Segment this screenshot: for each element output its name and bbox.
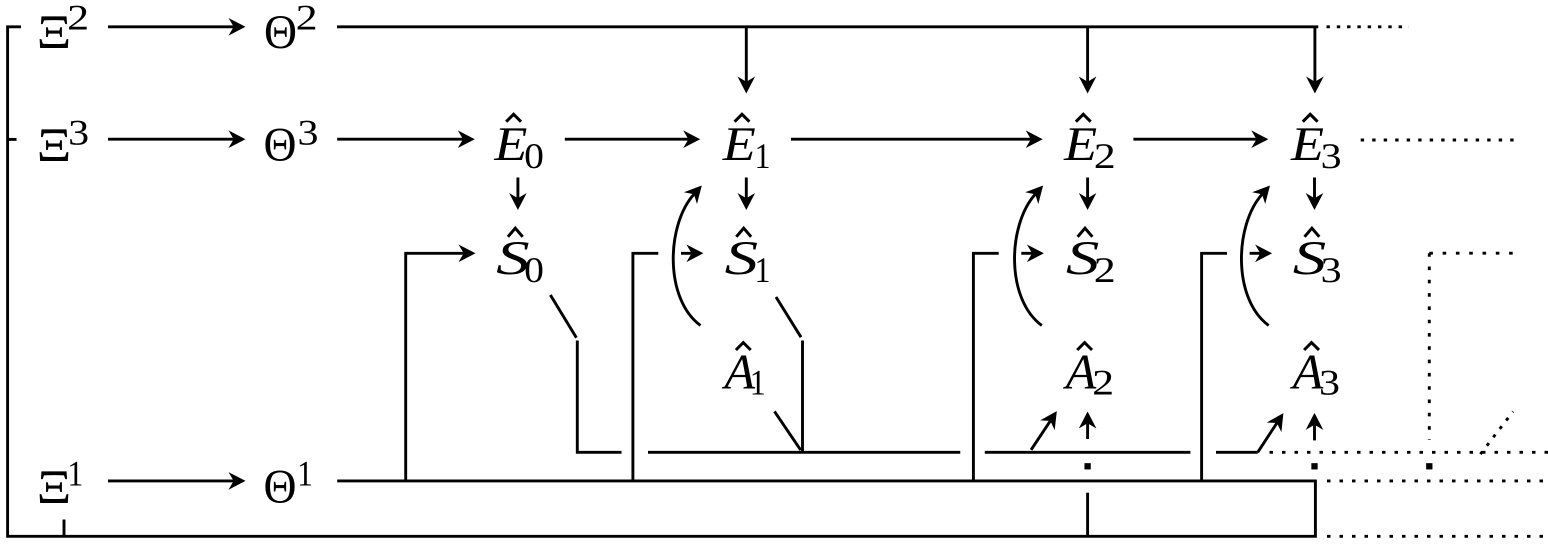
svg-text:1: 1 [750,363,766,403]
hat accent of E_0 [506,114,521,121]
wire below Theta^1 line to bottom bus at A_2 column [1086,493,1089,537]
arrow E_2 down to S_2 [1079,178,1097,211]
bracket connecting Xi nodes: top nub, left vertical, bottom bus, right riser [8,27,1316,537]
wire S_1 diagonal drop [776,297,801,337]
bracket nub at Xi^3 row [8,138,17,141]
arrow Xi^1 to Theta^1 [108,472,246,490]
wire S_0 diagonal drop [550,295,576,338]
arrow E_0 down to S_0 [509,178,527,211]
arrow into S_1 [681,245,703,263]
arrow vertical up to A_2 [1079,412,1097,440]
hat accent of E_1 [735,114,750,121]
arrow Theta^2 bus down to E_3 [1306,27,1324,94]
wire Theta^2 horizontal bus [337,25,1318,28]
arrow E_2 to E_3 [1133,130,1268,148]
wire riser Theta^1 to S_1 nub [633,253,658,481]
svg-text:Ξ: Ξ [37,461,72,514]
dotted riser to S_4 (off-figure) [1429,253,1521,440]
dotted continuation of E chain [1361,139,1521,142]
wire Theta^1 horizontal bus [337,479,1316,482]
svg-text:1: 1 [297,454,313,494]
arrow vertical up to A_3 [1306,413,1324,441]
dotted A-row bus continuation [1270,451,1548,454]
svg-text:3: 3 [1319,363,1340,403]
svg-text:S: S [725,232,759,285]
svg-text:1: 1 [67,454,83,494]
svg-text:Θ: Θ [264,118,297,171]
curved arrow up into E_3 [1241,186,1270,326]
svg-text:Θ: Θ [264,461,297,514]
curved arrow up into E_1 [673,186,702,326]
wire A_1 diagonal drop to junction [775,411,801,450]
arrow into S_3 [1250,245,1273,263]
arrow E_1 to E_2 [791,130,1043,148]
svg-text:0: 0 [524,250,544,290]
svg-text:Ξ: Ξ [37,119,72,172]
svg-text:3: 3 [1321,250,1342,290]
svg-text:2: 2 [1094,136,1116,176]
dotted continuation of bottom bus [1327,535,1546,538]
hat accent of A_2 [1077,343,1092,350]
wire S_0 vertical drop and feed to bus [577,341,621,453]
dotted continuation of Theta^1 bus [1327,479,1548,482]
dot below dotted riser [1428,465,1431,468]
hat accent of S_2 [1078,228,1093,237]
dot of crossing line below A_2 [1086,465,1089,468]
wire A-row bus segment t3 [1216,451,1258,454]
svg-text:3: 3 [68,113,89,153]
svg-text:3: 3 [298,113,319,153]
bracket tick below Xi^1 [63,520,66,537]
arrow E_1 down to S_1 [738,178,756,211]
hat accent of E_3 [1303,114,1318,121]
svg-text:0: 0 [524,136,544,176]
dotted continuation of Theta^2 bus [1327,25,1410,28]
hat accent of E_2 [1076,114,1091,121]
dot of crossing line below A_3 [1313,465,1316,468]
hat accent of A_1 [736,343,751,350]
svg-text:1: 1 [755,136,771,176]
svg-text:1: 1 [755,250,771,290]
svg-text:E: E [722,118,756,171]
wire S_1 vertical drop [801,341,804,453]
wire riser Theta^1 to S_0 with arrow [406,245,476,481]
arrow Xi^3 to Theta^3 [108,130,246,148]
arrow Theta^2 bus down to E_2 [1079,27,1097,94]
arrow diagonal from bus to A_2 [1031,411,1057,450]
wire riser Theta^1 to S_3 nub [1202,253,1227,481]
arrow Theta^3 to E_0 [337,130,475,148]
wire A-row bus segment t2 [985,451,1191,454]
hat accent of A_3 [1304,343,1319,350]
arrow diagonal from bus to A_3 [1258,413,1284,452]
svg-text:Θ: Θ [264,6,297,59]
arrow E_0 to E_1 [565,130,700,148]
svg-text:2: 2 [1092,363,1114,403]
arrow Theta^2 bus down to E_1 [738,27,756,94]
svg-text:2: 2 [67,0,89,37]
svg-text:2: 2 [296,0,318,37]
svg-text:2: 2 [1094,250,1116,290]
hat accent of S_1 [736,228,751,237]
svg-text:E: E [1063,118,1097,171]
dotted diagonal to A_4 (off-figure) [1480,412,1513,455]
hat accent of S_0 [508,228,523,237]
curved arrow up into E_2 [1015,186,1044,326]
svg-text:E: E [493,118,527,171]
wire A-row bus segment t1 [648,451,960,454]
svg-text:3: 3 [1321,136,1342,176]
arrow E_3 down to S_3 [1306,178,1324,211]
svg-text:E: E [1290,118,1324,171]
arrow into S_2 [1021,245,1044,263]
hat accent of S_3 [1305,228,1320,237]
wire riser Theta^1 to S_2 nub [973,253,998,481]
arrow Xi^2 to Theta^2 [108,18,246,36]
